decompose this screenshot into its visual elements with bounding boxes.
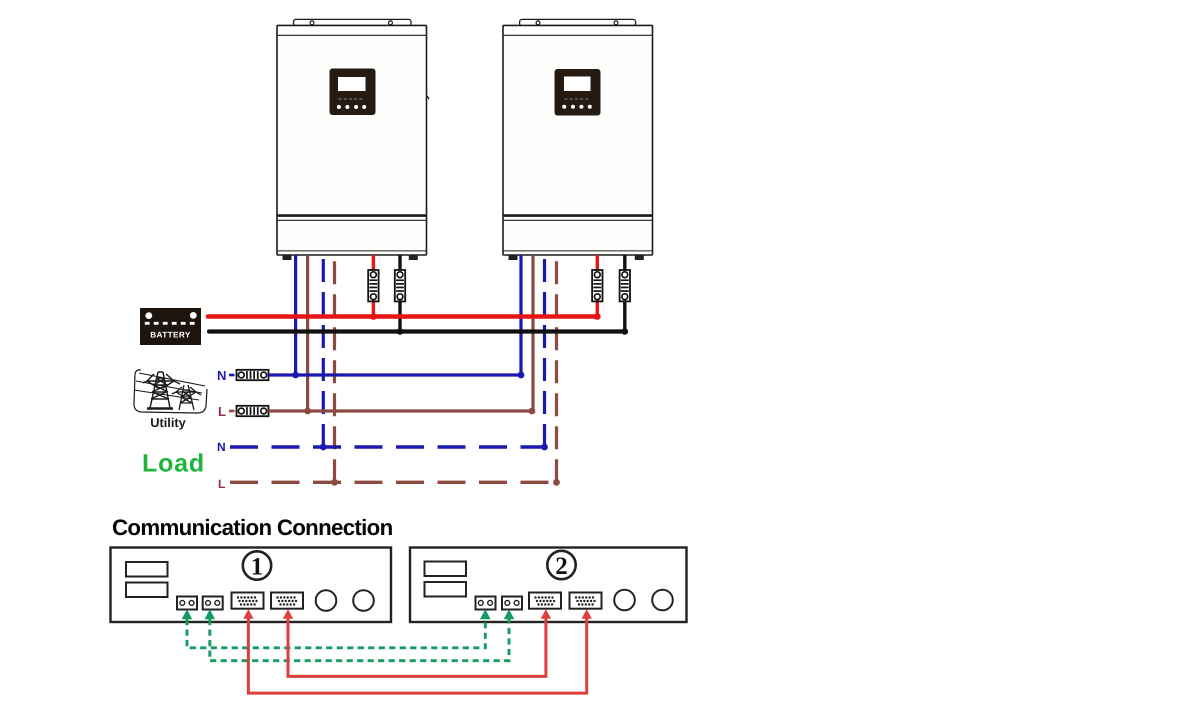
U2 control panel: [555, 69, 601, 116]
node: U2 load L end: [553, 479, 560, 486]
round port: [652, 590, 673, 611]
wire U2 AC-in L (brown): [531, 255, 534, 411]
comm cable: DB9 A1-B2 (red lower): [248, 619, 586, 694]
current sharing port B: [502, 597, 522, 610]
utility grid icon: [134, 370, 207, 413]
svg-text:BATTERY: BATTERY: [150, 331, 191, 340]
node: U1 load N junction: [320, 444, 327, 451]
vent slot: [126, 562, 168, 577]
round port: [614, 590, 635, 611]
wire: load L dashed line: [230, 481, 557, 484]
unit number 1: [243, 551, 271, 579]
wire U2 AC-out N (blue dashed): [543, 255, 546, 447]
parallel comm port A (DB9): [232, 593, 264, 609]
breaker F5 (utility N): [237, 370, 269, 380]
wire U2 AC-in N (blue): [519, 255, 522, 375]
svg-text:N: N: [217, 368, 226, 383]
wire U1 battery - (black): [398, 255, 401, 332]
node: U1 L junction: [304, 408, 311, 415]
U1 control panel: [330, 69, 376, 116]
inverter U1: [277, 19, 429, 260]
wire U1 AC-in L (brown): [306, 255, 309, 411]
stub to L breaker: [229, 410, 235, 413]
svg-text:N: N: [217, 440, 226, 454]
comm panel 1: [111, 548, 392, 623]
svg-text:Communication Connection: Communication Connection: [112, 515, 393, 540]
node: U2 L end: [529, 408, 536, 415]
wire: utility L line: [269, 409, 533, 412]
arrowhead at DB9 B1: [283, 609, 293, 619]
wire U2 AC-out L (brown dashed): [555, 255, 558, 482]
current sharing port A: [476, 597, 496, 610]
node: U1 load L junction: [331, 479, 338, 486]
round port: [316, 590, 337, 611]
comm panel 2: [410, 548, 687, 623]
node: U1 N junction: [292, 372, 299, 379]
arrowhead at DB9 B2: [582, 609, 592, 619]
wire U2 battery - (black): [623, 255, 626, 332]
comm cable: sharing A1-A2 (green dashed): [187, 619, 485, 648]
breaker F3 on U2 battery +: [592, 270, 602, 301]
node: U1 black to bus: [397, 328, 404, 335]
node: U2 N end: [518, 372, 525, 379]
parallel comm port B (DB9): [570, 593, 602, 609]
breaker F4 on U2 battery -: [620, 270, 630, 301]
node: U2 black bus end: [622, 328, 629, 335]
comm cable: sharing B1-B2 (green dashed): [210, 619, 509, 661]
breaker F2 on U1 battery -: [395, 270, 405, 301]
battery BT1: [140, 308, 201, 345]
current sharing port B: [203, 597, 223, 610]
wire U1 AC-out L (brown dashed): [333, 255, 336, 482]
wire U2 battery + (red): [596, 255, 599, 317]
unit number 2: [547, 551, 575, 579]
vent slot: [425, 582, 467, 597]
inverter U2: [503, 19, 653, 260]
svg-text:L: L: [218, 477, 225, 491]
svg-text:L: L: [218, 404, 226, 419]
svg-text:2: 2: [555, 553, 568, 580]
arrowhead at DB9 A2: [541, 609, 551, 619]
round port: [353, 590, 374, 611]
big tower: [143, 372, 180, 409]
wire: load N dashed line: [230, 445, 545, 448]
breaker F1 on U1 battery +: [368, 270, 378, 301]
parallel comm port B (DB9): [271, 593, 303, 609]
svg-text:1: 1: [251, 554, 264, 581]
stub to N breaker: [229, 374, 235, 377]
current sharing port A: [177, 597, 197, 610]
wire U1 AC-out N (blue dashed): [322, 255, 325, 447]
battery - bus (black): [209, 329, 625, 333]
comm cable: DB9 B1-A2 (red upper): [288, 619, 546, 677]
arrowhead at A2: [480, 609, 491, 619]
small tower: [172, 385, 201, 410]
node: U2 load N end: [541, 444, 548, 451]
arrowhead at B2: [504, 609, 515, 619]
arrowhead at DB9 A1: [243, 609, 253, 619]
vent slot: [126, 583, 168, 598]
svg-text:Load: Load: [142, 450, 205, 478]
node: U1 red to bus: [370, 313, 377, 320]
parallel comm port A (DB9): [529, 593, 561, 609]
arrowhead at A1: [182, 609, 193, 619]
node: U2 red bus end: [594, 313, 601, 320]
battery + bus (red): [208, 314, 597, 319]
arrowhead at B1: [205, 609, 216, 619]
wire U1 AC-in N (blue): [294, 255, 297, 375]
breaker F6 (utility L): [237, 406, 269, 416]
vent slot: [425, 562, 467, 577]
wire: utility N line: [269, 373, 522, 376]
wire U1 battery + (red): [372, 255, 375, 317]
svg-text:Utility: Utility: [150, 415, 186, 430]
